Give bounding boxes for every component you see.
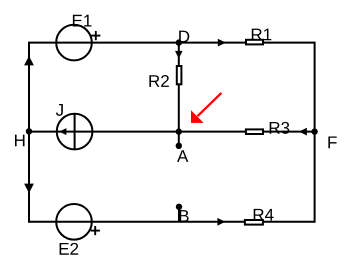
terminal B dot: [176, 204, 182, 210]
label F: [328, 137, 336, 149]
current arrow right on bottom rail: [217, 218, 225, 226]
current arrow up on left rail: [24, 56, 34, 66]
resistor R3: [246, 129, 263, 134]
wire bottom rail: [29, 221, 315, 223]
label A: [177, 150, 188, 162]
label R1: [252, 29, 272, 41]
label R4: [254, 209, 274, 221]
label E2: [60, 243, 79, 255]
plus sign of E1: [91, 31, 100, 40]
current arrow down below node D: [175, 51, 183, 59]
current arrow down on left rail: [24, 184, 34, 194]
node H junction dot: [26, 128, 32, 134]
label J: [56, 104, 63, 116]
resistor R4: [245, 220, 263, 225]
wire stub node B: [178, 207, 180, 222]
current arrow right on top rail: [218, 39, 226, 47]
label B: [180, 210, 189, 222]
wire right rail: [314, 42, 316, 223]
voltage source E2: [56, 204, 92, 240]
current source J: [57, 114, 93, 150]
resistor R1: [246, 40, 263, 45]
node D junction dot: [176, 39, 182, 45]
label R2: [149, 75, 168, 87]
red annotation arrow pointing at node A: [191, 93, 221, 123]
terminal A dot: [176, 143, 182, 149]
node F junction dot: [311, 128, 317, 134]
node A junction dot on middle rail: [176, 128, 182, 134]
label R3: [270, 122, 290, 134]
wire stub node A: [178, 132, 180, 146]
plus sign of E2: [91, 226, 100, 235]
label D: [179, 31, 189, 43]
current arrow left on middle rail near F: [299, 128, 307, 136]
wire middle rail H to F: [29, 131, 315, 133]
wire top rail from H-corner to F-corner: [29, 42, 315, 44]
resistor R2: [177, 66, 182, 84]
wire branch D to A through R2: [178, 43, 180, 132]
voltage source E1: [56, 25, 92, 61]
label E1: [73, 15, 92, 27]
label H: [15, 135, 25, 147]
wire left rail: [28, 42, 30, 223]
